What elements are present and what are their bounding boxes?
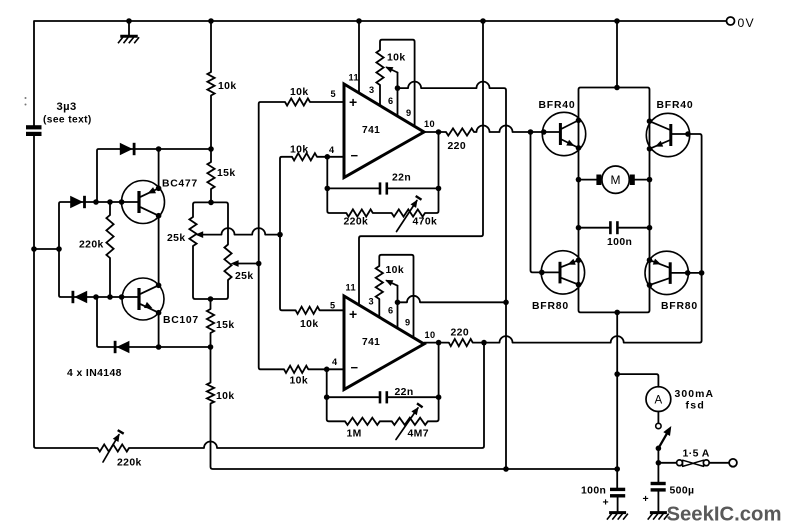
svg-text:4M7: 4M7	[408, 429, 429, 440]
svg-text:M: M	[611, 173, 622, 187]
svg-text:15k: 15k	[216, 320, 235, 331]
svg-text:220k: 220k	[344, 217, 369, 228]
svg-text:10: 10	[424, 119, 435, 129]
svg-text:10: 10	[425, 330, 436, 340]
svg-text:11: 11	[349, 73, 360, 83]
svg-text:(see text): (see text)	[43, 115, 92, 126]
svg-text:4 x IN4148: 4 x IN4148	[67, 368, 122, 379]
svg-text:+: +	[349, 306, 358, 322]
svg-text:BC107: BC107	[163, 315, 199, 326]
svg-text:4: 4	[332, 357, 338, 367]
svg-text:22n: 22n	[392, 173, 411, 184]
svg-text:11: 11	[346, 283, 357, 293]
svg-text:BFR40: BFR40	[657, 100, 694, 111]
svg-text:741: 741	[362, 337, 380, 348]
svg-text:300mA: 300mA	[675, 389, 715, 400]
svg-text:A: A	[655, 394, 663, 406]
svg-text:BFR80: BFR80	[532, 301, 569, 312]
svg-text:1·5 A: 1·5 A	[683, 448, 710, 460]
svg-text:220k: 220k	[79, 240, 104, 251]
svg-text:3µ3: 3µ3	[57, 101, 77, 113]
svg-text:SeekIC.com: SeekIC.com	[667, 504, 782, 526]
svg-text:10k: 10k	[290, 145, 309, 156]
svg-text:22n: 22n	[395, 387, 414, 398]
svg-text:−: −	[351, 360, 359, 375]
svg-text:470k: 470k	[413, 217, 438, 228]
svg-text:BFR80: BFR80	[661, 301, 698, 312]
svg-text:10k: 10k	[216, 391, 235, 402]
svg-text:10k: 10k	[386, 265, 405, 276]
svg-text:5: 5	[331, 89, 337, 99]
svg-text:3: 3	[369, 85, 375, 95]
svg-text:BC477: BC477	[162, 179, 198, 190]
svg-text:10k: 10k	[290, 87, 309, 98]
svg-text:6: 6	[388, 306, 394, 316]
svg-text:10k: 10k	[387, 53, 406, 64]
svg-text:741: 741	[362, 125, 380, 136]
svg-text:1M: 1M	[347, 429, 362, 440]
svg-text:10k: 10k	[218, 81, 237, 92]
svg-text:15k: 15k	[217, 168, 236, 179]
svg-text:6: 6	[388, 96, 394, 106]
svg-text:+: +	[643, 493, 650, 505]
svg-text:+: +	[603, 497, 610, 509]
svg-text:10k: 10k	[290, 376, 309, 387]
svg-text:3: 3	[369, 297, 375, 307]
svg-text:25k: 25k	[167, 233, 186, 244]
svg-text:25k: 25k	[235, 271, 254, 282]
svg-text:220: 220	[451, 327, 470, 338]
svg-text:0V: 0V	[738, 16, 755, 30]
svg-text:220k: 220k	[117, 458, 142, 469]
svg-text:220: 220	[448, 141, 467, 152]
svg-text:9: 9	[405, 318, 411, 328]
svg-text:100n: 100n	[607, 237, 632, 248]
svg-text:5: 5	[330, 301, 336, 311]
svg-text:9: 9	[406, 108, 412, 118]
svg-text:+: +	[349, 94, 358, 110]
svg-text:500µ: 500µ	[670, 486, 695, 497]
svg-text:BFR40: BFR40	[539, 100, 576, 111]
svg-text:−: −	[351, 148, 359, 163]
svg-text:fsd: fsd	[686, 400, 706, 412]
svg-text:100n: 100n	[581, 486, 606, 497]
svg-text:10k: 10k	[300, 319, 319, 330]
svg-text:4: 4	[329, 145, 335, 155]
